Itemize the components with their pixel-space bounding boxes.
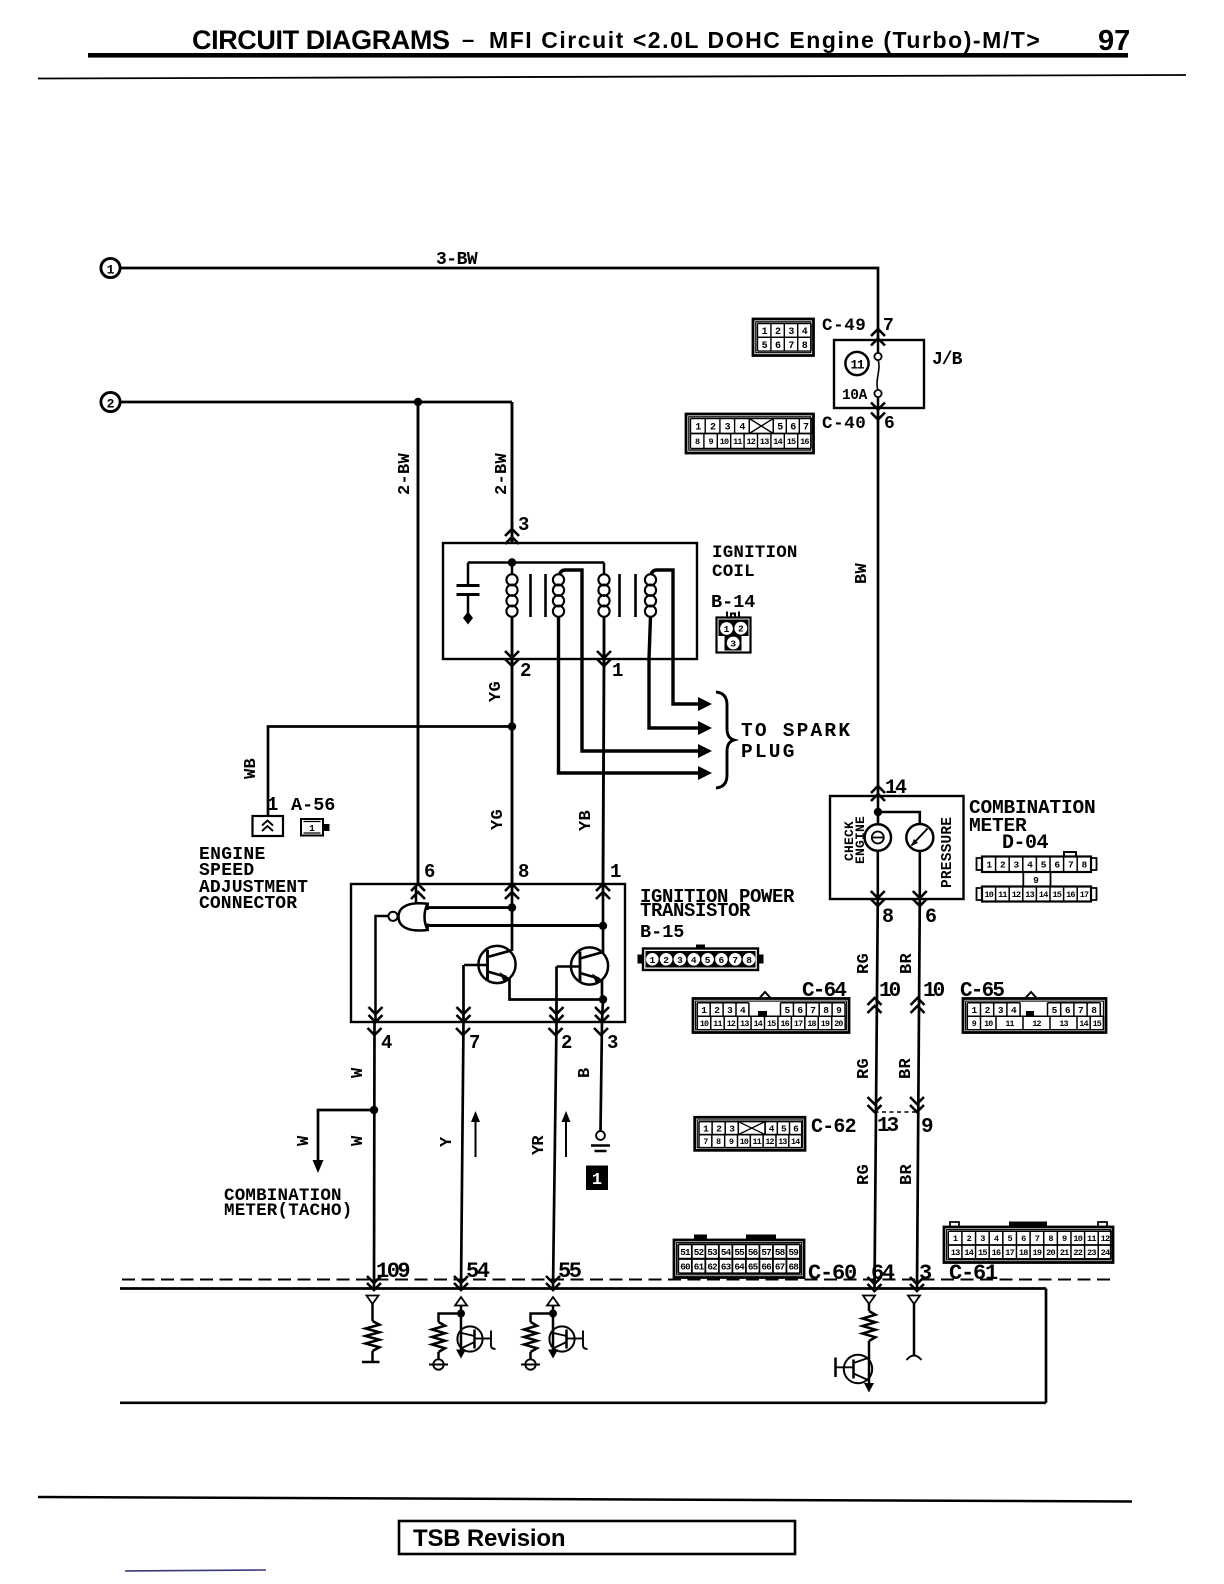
svg-text:C-60: C-60 xyxy=(808,1261,856,1286)
svg-text:6: 6 xyxy=(925,906,937,929)
svg-text:13: 13 xyxy=(778,1138,787,1147)
svg-text:6: 6 xyxy=(884,414,895,434)
arrow out of box pin 7 xyxy=(457,1015,471,1022)
arrow at ECU pin 109 xyxy=(367,1276,381,1283)
connector C-60 xyxy=(674,1235,804,1278)
wire pin 8 to transistor Q1 collector xyxy=(511,884,514,951)
svg-text:3: 3 xyxy=(677,955,683,966)
arrow out of meter pin 6 xyxy=(913,899,927,906)
svg-text:A-56: A-56 xyxy=(291,795,335,816)
svg-text:67: 67 xyxy=(775,1261,785,1272)
svg-text:MFI Circuit <2.0L DOHC Engine: MFI Circuit <2.0L DOHC Engine (Turbo)-M/… xyxy=(489,27,1041,53)
svg-text:1: 1 xyxy=(267,794,278,816)
svg-text:J/B: J/B xyxy=(932,350,963,370)
svg-text:–: – xyxy=(462,27,474,52)
svg-text:52: 52 xyxy=(694,1247,705,1258)
arrow out of box pin 4 xyxy=(369,1015,383,1022)
wire YG from coil pin 2 down to transistor pin 8 xyxy=(511,659,514,884)
svg-text:24: 24 xyxy=(1101,1248,1110,1258)
node 2 terminal circle xyxy=(101,392,120,411)
svg-text:61: 61 xyxy=(694,1261,705,1272)
svg-text:16: 16 xyxy=(800,437,809,447)
svg-text:14: 14 xyxy=(791,1138,800,1147)
svg-text:18: 18 xyxy=(1019,1248,1028,1258)
svg-text:2: 2 xyxy=(967,1234,972,1244)
svg-text:11: 11 xyxy=(1005,1020,1014,1029)
svg-text:10: 10 xyxy=(700,1020,709,1029)
svg-text:20: 20 xyxy=(834,1020,843,1029)
svg-text:55: 55 xyxy=(734,1247,745,1258)
svg-text:B-14: B-14 xyxy=(711,592,755,613)
svg-text:7: 7 xyxy=(1035,1234,1040,1244)
wire from node 2 xyxy=(120,401,512,404)
svg-text:2: 2 xyxy=(738,624,744,635)
svg-text:8: 8 xyxy=(518,861,529,883)
junction inside meter xyxy=(874,808,882,816)
dashed harness boundary line xyxy=(122,1279,1110,1281)
svg-text:9: 9 xyxy=(921,1116,934,1139)
svg-text:W: W xyxy=(349,1067,368,1078)
ground reference box 1 xyxy=(586,1166,608,1191)
svg-text:2: 2 xyxy=(775,327,781,338)
dashed tie C-62 xyxy=(875,1111,918,1113)
svg-text:19: 19 xyxy=(1033,1248,1042,1258)
connector C-64 xyxy=(693,992,849,1033)
wire W from pin 4 to ECU pin 109 xyxy=(373,1022,376,1288)
svg-text:68: 68 xyxy=(788,1261,799,1272)
wire pin 1 to transistor Q2 collector xyxy=(602,884,605,953)
svg-text:3: 3 xyxy=(607,1032,618,1054)
wire 2-BW left branch down to transistor pin 6 xyxy=(417,402,420,884)
spark plug lead 3 (secondary 1 top tap) xyxy=(560,570,713,758)
svg-text:57: 57 xyxy=(761,1247,771,1258)
svg-text:6: 6 xyxy=(1021,1234,1026,1244)
svg-text:METER(TACHO): METER(TACHO) xyxy=(224,1201,352,1221)
svg-text:5: 5 xyxy=(1007,1234,1012,1244)
svg-text:10: 10 xyxy=(923,980,945,1003)
svg-text:7: 7 xyxy=(469,1032,480,1054)
svg-text:4: 4 xyxy=(381,1032,392,1054)
curly brace for spark plugs xyxy=(716,692,734,788)
svg-text:14: 14 xyxy=(1039,890,1048,900)
wire Y from pin 7 to ECU pin 54 xyxy=(461,1022,464,1288)
nand gate U1 xyxy=(388,884,427,931)
svg-text:10: 10 xyxy=(1073,1234,1082,1244)
ignition coil primary 1 winding xyxy=(506,574,517,617)
svg-text:3-BW: 3-BW xyxy=(436,250,478,270)
wire 3-BW from node 1 to J/B xyxy=(120,268,878,341)
svg-text:8: 8 xyxy=(882,906,894,929)
A-56 connector icon xyxy=(301,819,330,836)
svg-text:6: 6 xyxy=(719,955,725,966)
svg-text:14: 14 xyxy=(773,437,782,447)
svg-text:YG: YG xyxy=(487,681,506,702)
svg-text:66: 66 xyxy=(761,1261,772,1272)
svg-text:YR: YR xyxy=(530,1135,549,1155)
svg-text:1: 1 xyxy=(592,1171,602,1190)
wire lamp to pin 8 xyxy=(876,851,879,899)
svg-text:TSB Revision: TSB Revision xyxy=(413,1525,565,1552)
svg-text:54: 54 xyxy=(721,1247,732,1258)
svg-text:10A: 10A xyxy=(842,388,868,404)
svg-text:10: 10 xyxy=(879,980,901,1003)
arrow C-64 pin 10 xyxy=(868,998,882,1005)
junction emitters pin 3 xyxy=(599,995,607,1003)
svg-text:12: 12 xyxy=(1032,1020,1041,1029)
connector C-62 xyxy=(695,1117,805,1150)
svg-text:13: 13 xyxy=(951,1248,960,1258)
svg-text:W: W xyxy=(349,1135,368,1146)
arrow at ECU pin 54 xyxy=(454,1276,468,1283)
svg-text:1: 1 xyxy=(107,263,115,278)
svg-text:11: 11 xyxy=(998,890,1007,900)
svg-text:12: 12 xyxy=(727,1020,736,1029)
svg-text:RG: RG xyxy=(855,953,874,974)
svg-text:10: 10 xyxy=(720,437,729,447)
ignition coil box xyxy=(443,543,697,659)
ignition coil secondary 1 winding xyxy=(553,574,564,617)
svg-text:TO SPARK: TO SPARK xyxy=(741,720,852,742)
svg-text:B: B xyxy=(576,1068,595,1078)
connector C-40 xyxy=(686,414,814,453)
svg-text:4: 4 xyxy=(691,955,697,966)
arrow out of J/B (pin 6) xyxy=(871,413,885,420)
svg-text:BR: BR xyxy=(897,1057,916,1079)
wire B from pin 3 to ground xyxy=(601,1022,603,1131)
check engine lamp xyxy=(865,824,891,850)
svg-text:9: 9 xyxy=(1033,875,1039,886)
svg-text:14: 14 xyxy=(754,1020,763,1029)
svg-text:64: 64 xyxy=(734,1261,745,1272)
ECU box xyxy=(120,1289,1046,1403)
svg-text:22: 22 xyxy=(1073,1248,1082,1258)
svg-text:C-40: C-40 xyxy=(822,414,866,434)
svg-text:21: 21 xyxy=(1060,1248,1069,1258)
wire RG meter pin8 to ECU pin 64 xyxy=(875,899,878,1288)
svg-text:12: 12 xyxy=(746,437,755,447)
header thick rule xyxy=(88,53,1128,58)
wire BW from C-40 to combination meter xyxy=(877,408,880,796)
connector B-14 xyxy=(717,612,751,653)
arrow out of coil pin 1 xyxy=(597,659,611,666)
svg-text:BW: BW xyxy=(853,562,872,584)
arrow at ECU pin 64 xyxy=(868,1277,882,1284)
TSB Revision box xyxy=(399,1521,795,1554)
wire gauge to pin 6 xyxy=(918,851,921,899)
svg-text:4: 4 xyxy=(802,327,808,338)
arrow into box pin 6 xyxy=(411,884,425,891)
svg-text:COIL: COIL xyxy=(712,562,755,582)
svg-text:5: 5 xyxy=(762,341,768,352)
svg-text:IGNITION: IGNITION xyxy=(712,543,798,563)
svg-text:2: 2 xyxy=(107,397,115,412)
svg-text:YB: YB xyxy=(577,810,596,831)
flow arrow beside YR wire xyxy=(562,1111,571,1157)
svg-text:TRANSISTOR: TRANSISTOR xyxy=(640,900,751,922)
svg-text:23: 23 xyxy=(1087,1248,1096,1258)
svg-text:10: 10 xyxy=(984,1020,993,1029)
svg-text:PRESSURE: PRESSURE xyxy=(940,817,956,888)
svg-text:16: 16 xyxy=(992,1248,1001,1258)
svg-text:8: 8 xyxy=(695,437,700,447)
svg-text:3: 3 xyxy=(919,1261,932,1286)
svg-text:11: 11 xyxy=(713,1020,722,1029)
arrow into coil pin 3 xyxy=(505,529,519,536)
svg-text:2: 2 xyxy=(561,1032,572,1054)
svg-text:6: 6 xyxy=(790,423,796,434)
arrow out of coil pin 2 xyxy=(505,659,519,666)
arrow into box pin 1 xyxy=(596,884,610,891)
svg-text:97: 97 xyxy=(1098,25,1130,57)
svg-text:16: 16 xyxy=(780,1020,789,1029)
wire branch to combination meter tacho xyxy=(313,1110,375,1173)
connector C-61 xyxy=(944,1222,1113,1263)
svg-text:16: 16 xyxy=(1066,890,1075,900)
svg-text:7: 7 xyxy=(803,423,809,434)
svg-text:8: 8 xyxy=(802,341,808,352)
arrow at ECU pin 55 xyxy=(546,1276,560,1283)
svg-text:C-61: C-61 xyxy=(949,1261,998,1286)
arrow into J/B (pin 7) xyxy=(871,329,885,336)
svg-text:13: 13 xyxy=(1025,890,1034,900)
transistor Q2 xyxy=(557,947,609,984)
svg-text:YG: YG xyxy=(489,809,508,830)
arrow at ECU pin 3 xyxy=(910,1277,924,1284)
ignition coil secondary 2 winding xyxy=(645,574,656,617)
svg-text:D-04: D-04 xyxy=(1002,832,1049,855)
pressure gauge xyxy=(906,824,933,851)
svg-text:1: 1 xyxy=(309,823,315,834)
ground symbol xyxy=(591,1131,610,1151)
coil internal bus wire xyxy=(468,563,604,576)
ECU pin 3 stub terminal xyxy=(907,1296,922,1361)
junction tacho branch xyxy=(370,1106,378,1114)
connector C-49 xyxy=(753,319,814,356)
svg-text:1: 1 xyxy=(695,423,701,434)
svg-text:13: 13 xyxy=(740,1020,749,1029)
svg-text:6: 6 xyxy=(775,341,781,352)
ECU pin 54 driver (resistor R and transistor Q) xyxy=(429,1297,496,1370)
svg-text:BR: BR xyxy=(898,952,917,974)
junction pin8/collector xyxy=(508,903,516,911)
junction of A-56 branch on YG wire xyxy=(508,722,516,730)
svg-text:59: 59 xyxy=(788,1247,799,1258)
ignition coil primary 2 winding xyxy=(598,574,609,617)
wire YB from coil pin 1 down to transistor pin 1 xyxy=(603,659,604,884)
svg-text:WB: WB xyxy=(242,758,261,779)
svg-text:9: 9 xyxy=(1062,1234,1067,1244)
arrow out of box pin 3 xyxy=(595,1015,609,1022)
svg-text:6: 6 xyxy=(424,861,435,883)
svg-text:2-BW: 2-BW xyxy=(396,452,415,495)
coil core 1 xyxy=(531,574,546,617)
svg-text:17: 17 xyxy=(1005,1248,1014,1258)
svg-text:3: 3 xyxy=(730,639,736,650)
header thin rule xyxy=(38,75,1186,79)
svg-text:11: 11 xyxy=(850,359,864,373)
svg-text:7: 7 xyxy=(732,955,738,966)
wire Q2 emitter to pin3 node xyxy=(601,980,604,1000)
nand output wire bottom to pin1 node xyxy=(426,924,603,927)
svg-text:4: 4 xyxy=(739,423,745,434)
ECU pin 55 driver (resistor R and transistor Q) xyxy=(521,1297,588,1370)
svg-text:7: 7 xyxy=(788,341,794,352)
fuse element xyxy=(874,341,881,408)
svg-text:B-15: B-15 xyxy=(640,922,684,943)
svg-text:W: W xyxy=(295,1135,314,1146)
wire coil primary 2 to pin 1 xyxy=(603,617,606,660)
connector B-15 xyxy=(638,945,764,971)
svg-text:8: 8 xyxy=(746,955,752,966)
arrow C-65 pin 10 xyxy=(911,998,925,1005)
svg-text:12: 12 xyxy=(1012,890,1021,900)
arrow C-62 pin 13 xyxy=(868,1105,882,1112)
svg-text:9: 9 xyxy=(708,437,713,447)
svg-text:15: 15 xyxy=(767,1020,776,1029)
svg-text:1: 1 xyxy=(612,660,623,682)
arrow into combination meter pin 14 xyxy=(871,786,885,793)
svg-text:11: 11 xyxy=(733,437,742,447)
wire BR meter pin6 to ECU pin 3 xyxy=(917,899,920,1288)
svg-text:7: 7 xyxy=(883,316,894,336)
fuse 11 circle xyxy=(845,352,868,375)
svg-text:13: 13 xyxy=(760,437,769,447)
arrow C-62 pin 9 xyxy=(910,1105,924,1112)
A-56 terminal symbol xyxy=(253,816,284,836)
nand input wire down to pin 4 xyxy=(376,916,388,1022)
svg-text:PLUG: PLUG xyxy=(741,741,797,763)
svg-text:12: 12 xyxy=(1101,1234,1110,1244)
svg-text:62: 62 xyxy=(707,1261,718,1272)
svg-text:5: 5 xyxy=(777,423,783,434)
svg-text:1: 1 xyxy=(953,1234,958,1244)
svg-text:8: 8 xyxy=(1048,1234,1053,1244)
wire junction to pin 3 xyxy=(602,1000,603,1023)
svg-text:11: 11 xyxy=(1087,1234,1096,1244)
capacitor (condenser) xyxy=(457,563,480,625)
svg-text:ENGINE: ENGINE xyxy=(853,816,868,864)
svg-text:CIRCUIT DIAGRAMS: CIRCUIT DIAGRAMS xyxy=(192,25,450,55)
svg-text:15: 15 xyxy=(1052,890,1061,900)
svg-text:3: 3 xyxy=(788,327,794,338)
svg-text:C-62: C-62 xyxy=(811,1116,856,1139)
svg-text:RG: RG xyxy=(855,1058,874,1079)
svg-text:3: 3 xyxy=(725,423,731,434)
svg-text:CONNECTOR: CONNECTOR xyxy=(199,894,297,914)
svg-text:58: 58 xyxy=(775,1247,786,1258)
svg-text:1: 1 xyxy=(610,861,621,883)
wire Q2 base to pin 2 xyxy=(555,967,558,1023)
wire coil primary 1 to pin 2 xyxy=(511,617,514,660)
wire to engine speed adjustment connector xyxy=(268,727,512,817)
svg-text:56: 56 xyxy=(748,1247,759,1258)
spark plug lead 1 (secondary 2 top tap) xyxy=(651,570,712,711)
spark plug lead 2 (secondary 2 bottom) xyxy=(649,617,712,736)
ECU pin 64 lamp driver transistor xyxy=(836,1296,876,1393)
svg-text:1: 1 xyxy=(762,327,768,338)
svg-text:12: 12 xyxy=(765,1138,774,1147)
svg-text:2-BW: 2-BW xyxy=(493,452,512,495)
svg-text:14: 14 xyxy=(1079,1020,1088,1029)
svg-text:13: 13 xyxy=(1059,1020,1068,1029)
svg-text:60: 60 xyxy=(680,1261,691,1272)
bottom page rule xyxy=(38,1497,1132,1502)
wire Q1 base to pin 7 xyxy=(462,965,465,1022)
wire YR from pin 2 to ECU pin 55 xyxy=(553,1022,557,1288)
junction on node-2 wire xyxy=(414,398,422,406)
svg-text:4: 4 xyxy=(994,1234,999,1244)
svg-text:15: 15 xyxy=(1093,1020,1102,1029)
svg-text:C-49: C-49 xyxy=(822,316,866,336)
svg-text:3: 3 xyxy=(518,514,529,536)
ECU pin 109 input resistor xyxy=(362,1296,380,1363)
coil core 2 xyxy=(620,574,636,617)
arrow into box pin 8 xyxy=(505,884,519,891)
svg-text:1: 1 xyxy=(724,624,730,635)
connector D-04 xyxy=(977,852,1097,902)
svg-text:14: 14 xyxy=(964,1248,973,1258)
svg-text:13: 13 xyxy=(877,1115,899,1138)
wire 2-BW right branch down to ignition coil xyxy=(511,402,514,543)
connector C-65 xyxy=(963,992,1106,1033)
svg-text:51: 51 xyxy=(680,1247,691,1258)
svg-text:10: 10 xyxy=(740,1138,749,1147)
svg-text:C-64: C-64 xyxy=(802,980,846,1003)
ignition power transistor box B-15 xyxy=(351,884,625,1022)
combination meter box xyxy=(830,796,964,899)
svg-text:65: 65 xyxy=(748,1261,759,1272)
svg-text:Y: Y xyxy=(438,1136,457,1147)
svg-text:18: 18 xyxy=(807,1020,816,1029)
svg-text:1: 1 xyxy=(649,955,655,966)
svg-text:3: 3 xyxy=(980,1234,985,1244)
nand output wire top to pin8 node xyxy=(426,906,512,909)
svg-text:53: 53 xyxy=(707,1247,718,1258)
svg-text:5: 5 xyxy=(705,955,711,966)
svg-text:2: 2 xyxy=(663,955,669,966)
junction pin1/collector xyxy=(599,922,607,930)
junction inside coil xyxy=(508,558,516,566)
svg-text:20: 20 xyxy=(1046,1248,1055,1258)
spark plug lead 4 (secondary 1 bottom) xyxy=(559,617,713,781)
transistor Q1 xyxy=(464,946,516,983)
svg-text:BR: BR xyxy=(898,1163,917,1185)
svg-text:2: 2 xyxy=(520,660,531,682)
svg-text:RG: RG xyxy=(855,1164,874,1185)
arrow out of meter pin 8 xyxy=(871,899,885,906)
svg-text:63: 63 xyxy=(721,1261,732,1272)
svg-text:15: 15 xyxy=(787,437,796,447)
wire to check engine lamp xyxy=(877,796,880,825)
node 1 terminal circle xyxy=(101,258,120,277)
svg-text:10: 10 xyxy=(984,890,993,900)
svg-text:C-65: C-65 xyxy=(960,980,1004,1003)
wire branch to pressure gauge xyxy=(878,812,920,824)
svg-text:2: 2 xyxy=(710,423,716,434)
flow arrow beside Y wire xyxy=(471,1111,480,1157)
blue scan artifact line xyxy=(125,1570,266,1571)
svg-text:19: 19 xyxy=(821,1020,830,1029)
page header title xyxy=(192,25,1130,57)
svg-text:17: 17 xyxy=(794,1020,803,1029)
junction block J/B box xyxy=(834,340,924,408)
svg-text:11: 11 xyxy=(753,1138,762,1147)
svg-text:17: 17 xyxy=(1080,890,1089,900)
arrow out of box pin 2 xyxy=(550,1015,564,1022)
wire Q1 emitter to pin3 node xyxy=(510,978,604,1000)
svg-text:15: 15 xyxy=(978,1248,987,1258)
